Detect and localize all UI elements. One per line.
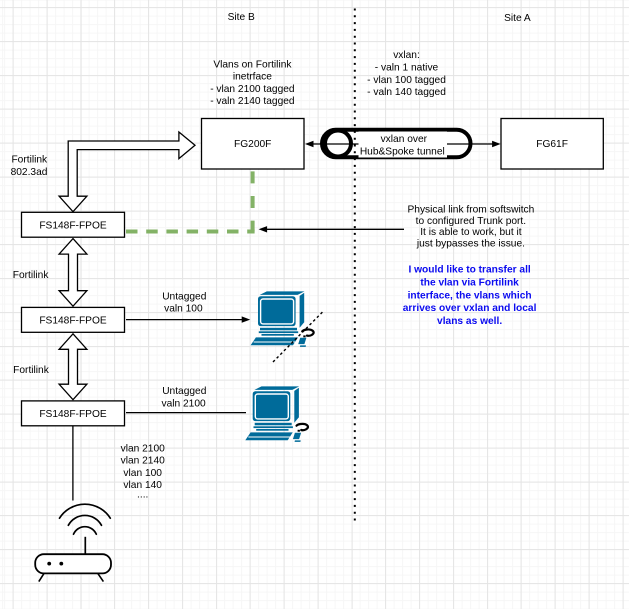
link arrow FS148F-1 to FS148F-2 (outline double arrow) — [59, 239, 87, 307]
svg-text:Untagged: Untagged — [162, 292, 207, 303]
svg-text:vlan 2140: vlan 2140 — [121, 456, 166, 467]
svg-text:Physical link from softswitch: Physical link from softswitch — [407, 204, 534, 215]
svg-text:Vlans on Fortilink: Vlans on Fortilink — [213, 59, 292, 70]
PC 2 — [245, 386, 301, 442]
svg-text:802.3ad: 802.3ad — [11, 167, 48, 178]
svg-text:Fortilink: Fortilink — [13, 270, 50, 281]
PC 1 — [251, 291, 307, 347]
svg-text:FS148F-FPOE: FS148F-FPOE — [39, 409, 107, 420]
svg-text:interface, the vlans which: interface, the vlans which — [408, 290, 532, 301]
node FG200F — [202, 119, 305, 170]
svg-text:- valn 2140 tagged: - valn 2140 tagged — [210, 96, 295, 107]
svg-text:- valn 140 tagged: - valn 140 tagged — [367, 87, 446, 98]
wifi arcs — [60, 504, 111, 518]
svg-text:FG200F: FG200F — [234, 139, 271, 150]
svg-text:just bypasses the issue.: just bypasses the issue. — [416, 239, 525, 250]
tunnel shape (stadium) — [322, 130, 471, 158]
svg-text:the vlan via Fortilink: the vlan via Fortilink — [420, 278, 519, 289]
svg-text:Site B: Site B — [228, 12, 255, 23]
svg-text:arrives over vxlan and local: arrives over vxlan and local — [403, 303, 537, 314]
tunnel label — [359, 132, 448, 158]
wire: green dashed vertical from FG200F — [251, 169, 255, 231]
wire: arrow from note to green link — [266, 228, 404, 230]
wire: line FS148F-3 to PC2 — [126, 412, 246, 414]
svg-text:It is able to work, but it: It is able to work, but it — [420, 227, 522, 238]
node FS148F-FPOE 1 — [22, 212, 125, 237]
dashed diagonal through PC1 — [273, 312, 323, 363]
link arrow FS148F-2 to FS148F-3 (outline double arrow) — [59, 334, 87, 400]
svg-text:- vlan 2100 tagged: - vlan 2100 tagged — [210, 84, 295, 95]
wire: tunnel line FG200F to FG61F — [312, 143, 494, 145]
note: blue request text — [403, 265, 537, 327]
site separator dotted line — [354, 9, 356, 521]
svg-text:to configured Trunk port.: to configured Trunk port. — [416, 216, 526, 227]
node FG61F — [501, 119, 603, 170]
svg-text:inetrface: inetrface — [233, 72, 272, 83]
svg-text:FS148F-FPOE: FS148F-FPOE — [39, 220, 107, 231]
svg-text:Site A: Site A — [504, 13, 531, 24]
wire: green dashed horizontal to FS148F-FPOE — [126, 230, 255, 234]
wire: line FS148F-3 to wifi router — [72, 426, 74, 501]
router legs — [39, 573, 44, 581]
wire: arrow FS148F-2 to PC1 — [126, 319, 242, 321]
svg-text:vxlan over: vxlan over — [381, 134, 428, 145]
svg-text:FS148F-FPOE: FS148F-FPOE — [39, 316, 107, 327]
svg-text:vlans as well.: vlans as well. — [437, 316, 502, 327]
svg-text:valn 2100: valn 2100 — [162, 399, 207, 410]
svg-text:valn 100: valn 100 — [164, 303, 203, 314]
node FS148F-FPOE 2 — [22, 307, 125, 332]
svg-text:Fortilink: Fortilink — [11, 155, 48, 166]
svg-text:Untagged: Untagged — [162, 386, 207, 397]
question mark PC2 — [297, 424, 308, 432]
svg-text:....: .... — [137, 490, 148, 501]
svg-text:vlan 2100: vlan 2100 — [121, 444, 166, 455]
question mark PC1 — [302, 329, 313, 337]
svg-text:FG61F: FG61F — [536, 139, 568, 150]
node FS148F-FPOE 3 — [22, 401, 125, 426]
svg-text:Hub&Spoke tunnel: Hub&Spoke tunnel — [360, 146, 445, 157]
svg-text:Fortilink: Fortilink — [13, 365, 50, 376]
tunnel end circle — [325, 131, 351, 157]
router antenna — [84, 537, 86, 554]
svg-text:- vlan 100 tagged: - vlan 100 tagged — [367, 75, 446, 86]
router body — [35, 554, 111, 573]
svg-text:- valn 1 native: - valn 1 native — [375, 62, 439, 73]
link arrow FS148F to FG200F (outline double arrow) — [59, 132, 195, 212]
svg-text:I would like to transfer all: I would like to transfer all — [408, 265, 530, 276]
svg-text:vlan 100: vlan 100 — [123, 468, 162, 479]
router led dots — [47, 562, 51, 566]
svg-text:vxlan:: vxlan: — [393, 50, 420, 61]
